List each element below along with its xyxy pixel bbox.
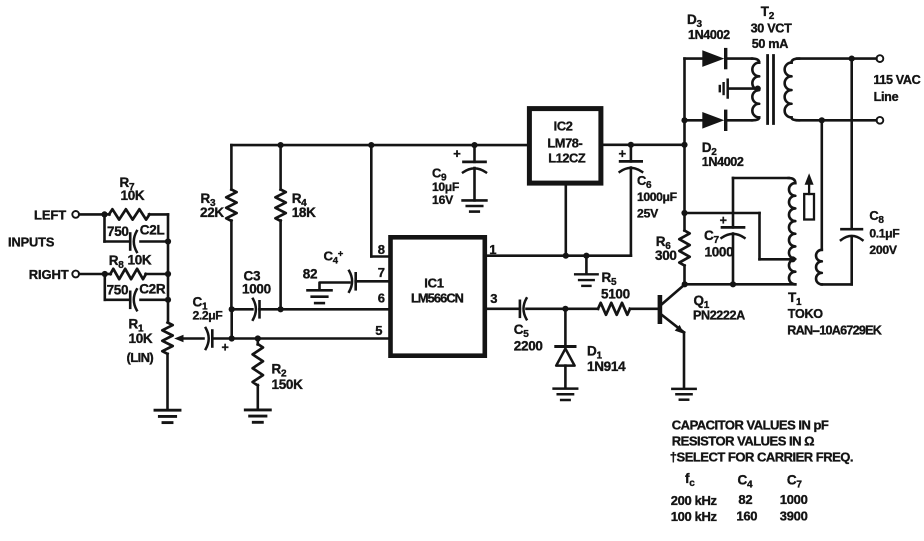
node C2R-bus: [165, 297, 171, 303]
svg-text:0.1μF: 0.1μF: [869, 227, 899, 241]
label INPUTS: [8, 234, 55, 249]
node rail gnd: [583, 253, 589, 259]
svg-text:CAPACITOR VALUES IN pF: CAPACITOR VALUES IN pF: [672, 418, 829, 433]
svg-text:750: 750: [107, 282, 129, 297]
wire right bus: [683, 59, 686, 285]
resistor R7: [105, 175, 169, 219]
svg-text:82: 82: [303, 267, 317, 282]
node C6 top: [628, 142, 634, 148]
note capacitor values: [672, 418, 829, 433]
transformer T1 primary winding: [789, 178, 796, 284]
ground rail symbol: [575, 256, 598, 286]
wire pin6 row: [281, 308, 391, 311]
svg-text:IC1: IC1: [424, 276, 443, 291]
capacitor C2L with 750 resistor: [105, 214, 169, 252]
capacitor C6: [619, 145, 677, 256]
wire pin8 feed: [371, 145, 390, 256]
svg-text:2.2μF: 2.2μF: [193, 309, 223, 323]
node C8 top: [849, 56, 855, 62]
node 12V junction: [681, 142, 687, 148]
wire left bus vertical: [167, 214, 170, 322]
svg-text:10μF: 10μF: [432, 180, 459, 194]
svg-text:5: 5: [375, 323, 382, 338]
svg-text:30 VCT: 30 VCT: [751, 21, 793, 35]
voltage regulator IC2 LM78-L12CZ box: [529, 109, 601, 184]
wire C7-top to T1 top: [733, 177, 789, 180]
wire IC2 ground pin: [564, 183, 567, 256]
ground D1: [554, 389, 578, 400]
svg-text:INPUTS: INPUTS: [8, 234, 55, 249]
svg-text:6: 6: [378, 290, 385, 305]
transistor Q1 PN2222A: [658, 285, 746, 334]
svg-text:Line: Line: [874, 90, 899, 104]
wire C4 to ground: [320, 283, 350, 290]
wire T2 bottom to line terminal: [797, 119, 876, 122]
transformer T2 right winding: [785, 59, 799, 121]
svg-text:8: 8: [378, 242, 385, 257]
pin 3 label: [490, 291, 497, 306]
svg-text:†SELECT FOR CARRIER FREQ.: †SELECT FOR CARRIER FREQ.: [670, 450, 853, 465]
wire pin5 row: [232, 337, 391, 340]
pin 7 label: [378, 265, 385, 280]
svg-text:1N914: 1N914: [587, 359, 626, 374]
svg-text:1000: 1000: [242, 282, 271, 297]
svg-text:L12CZ: L12CZ: [548, 151, 586, 166]
svg-text:PN2222A: PN2222A: [693, 309, 745, 323]
svg-text:82: 82: [738, 492, 752, 507]
svg-text:C2R: C2R: [139, 282, 166, 297]
resistor R3: [200, 145, 237, 309]
diode D1 1N914: [556, 309, 626, 388]
wire IC1 pin1 ground rail: [485, 254, 631, 257]
capacitor C9: [432, 145, 486, 207]
wire C1 to node: [212, 337, 231, 340]
svg-text:7: 7: [378, 265, 385, 280]
pin 8 label: [378, 242, 385, 257]
svg-text:LM566CN: LM566CN: [411, 291, 464, 306]
T1 tuning slug: [804, 173, 814, 219]
T2 center tap ground sideways: [720, 80, 758, 98]
note select carrier freq: [670, 450, 853, 465]
pin 6 label: [378, 290, 385, 305]
svg-text:3: 3: [490, 291, 497, 306]
ground R1: [155, 410, 180, 422]
svg-text:150K: 150K: [272, 377, 304, 392]
svg-text:+: +: [453, 146, 461, 161]
svg-text:200 kHz: 200 kHz: [671, 493, 718, 508]
input terminal RIGHT: [29, 267, 79, 282]
node C7 bottom: [730, 281, 736, 287]
node C9 top: [471, 142, 477, 148]
node C3-R4: [278, 306, 284, 312]
line terminal top: [877, 55, 884, 62]
svg-text:1N4002: 1N4002: [702, 155, 744, 169]
pin 1 label: [489, 242, 496, 257]
svg-text:1000: 1000: [705, 245, 734, 260]
T1 labels: [787, 290, 881, 338]
wire T1 secondary bottom to C8: [822, 283, 852, 286]
T2 center tap node: [755, 86, 761, 92]
svg-text:RIGHT: RIGHT: [29, 267, 69, 282]
wire LEFT input to node: [79, 213, 104, 216]
node pin8 feed: [368, 142, 374, 148]
node IC2 gnd: [563, 253, 569, 259]
node T1 feed: [819, 117, 825, 123]
svg-text:RAN--10A6729EK: RAN--10A6729EK: [787, 324, 881, 338]
ground C4: [308, 290, 332, 303]
wire IC2 output: [601, 144, 685, 147]
node C5-D1-R5: [562, 306, 568, 312]
wire Q1 emitter down: [683, 333, 686, 388]
node R6 top / tap: [681, 210, 687, 216]
note resistor values: [672, 433, 814, 448]
node right-in junction: [102, 271, 108, 277]
svg-text:50 mA: 50 mA: [752, 37, 789, 51]
transformer T2 core: [768, 56, 774, 124]
svg-text:18K: 18K: [292, 205, 316, 220]
svg-text:5100: 5100: [601, 286, 630, 301]
node Q1 collector: [682, 281, 688, 287]
wire link C1node to C3 row: [230, 309, 233, 338]
svg-text:25V: 25V: [637, 207, 659, 221]
capacitor C8: [841, 59, 899, 285]
potentiometer R1: [127, 317, 173, 409]
svg-text:100 kHz: 100 kHz: [671, 509, 718, 524]
svg-text:3900: 3900: [780, 509, 808, 524]
resistor R6: [655, 213, 690, 266]
ground C9: [463, 200, 487, 211]
capacitor C5: [514, 298, 566, 353]
svg-text:LEFT: LEFT: [34, 207, 66, 222]
svg-text:C2L: C2L: [140, 223, 165, 238]
svg-text:115 VAC: 115 VAC: [873, 73, 920, 87]
line terminal bottom: [877, 117, 884, 124]
capacitor C2R with 750 resistor: [105, 274, 168, 310]
svg-text:LM78-: LM78-: [547, 136, 582, 151]
capacitor C4: [303, 248, 391, 292]
svg-text:TOKO: TOKO: [788, 307, 823, 321]
node C1 out: [229, 335, 235, 341]
svg-text:+: +: [619, 146, 627, 161]
capacitor C1: [193, 295, 229, 355]
input terminal LEFT: [34, 207, 79, 222]
svg-text:(LIN): (LIN): [127, 350, 154, 365]
transformer T1 secondary winding: [816, 120, 822, 284]
svg-text:22K: 22K: [200, 205, 224, 220]
node R8-bus: [165, 271, 171, 277]
table row 200kHz: [671, 492, 808, 508]
label 115 VAC Line: [873, 73, 920, 104]
node C2L-bus: [165, 238, 171, 244]
transformer T2 left winding: [752, 59, 759, 121]
table row 100kHz: [671, 509, 808, 524]
diode D3 1N4002: [685, 12, 753, 67]
pin 5 label: [375, 323, 382, 338]
svg-text:10K: 10K: [128, 253, 152, 268]
svg-text:2200: 2200: [514, 338, 543, 353]
svg-text:1000: 1000: [780, 492, 808, 507]
svg-text:16V: 16V: [432, 193, 454, 207]
svg-text:750: 750: [107, 224, 129, 239]
node D2 junction: [681, 117, 687, 123]
resistor R2: [253, 339, 304, 409]
node R2 top: [255, 335, 261, 341]
resistor R4: [275, 145, 316, 309]
svg-text:1000μF: 1000μF: [637, 190, 677, 204]
capacitor C7: [704, 178, 745, 284]
capacitor C3: [232, 269, 281, 320]
wire tap to T1: [685, 213, 794, 259]
svg-text:1N4002: 1N4002: [688, 28, 730, 42]
svg-text:+: +: [222, 341, 229, 355]
resistor R5: [565, 270, 657, 315]
node T1 tap: [790, 256, 796, 262]
diode D2 1N4002: [685, 111, 753, 169]
T2 labels: [751, 4, 793, 51]
table header C7: [787, 473, 802, 491]
R1 wiper arrow: [174, 335, 203, 343]
svg-text:200V: 200V: [869, 243, 897, 257]
svg-text:IC2: IC2: [554, 119, 573, 134]
wire pin3 out: [485, 307, 520, 310]
wire top supply bus: [231, 144, 529, 147]
svg-text:RESISTOR VALUES IN Ω: RESISTOR VALUES IN Ω: [672, 433, 814, 448]
svg-text:+: +: [720, 213, 727, 227]
svg-text:160: 160: [736, 509, 757, 524]
svg-text:10K: 10K: [129, 331, 153, 346]
svg-text:300: 300: [655, 248, 677, 263]
ground Q1: [672, 389, 695, 400]
table header fc: [685, 471, 695, 489]
node R3 bottom: [229, 306, 235, 312]
node R4 top: [278, 142, 284, 148]
wire T2 top to line terminal: [797, 57, 876, 60]
table header C4: [738, 473, 753, 491]
wire RIGHT input to node: [79, 273, 105, 276]
op-amp IC1 LM566CN box: [391, 237, 485, 355]
svg-text:10K: 10K: [121, 188, 145, 203]
resistor R8: [105, 253, 168, 280]
ground R2: [245, 410, 270, 422]
node left-in junction: [101, 211, 107, 217]
wire collector rail: [685, 283, 796, 286]
